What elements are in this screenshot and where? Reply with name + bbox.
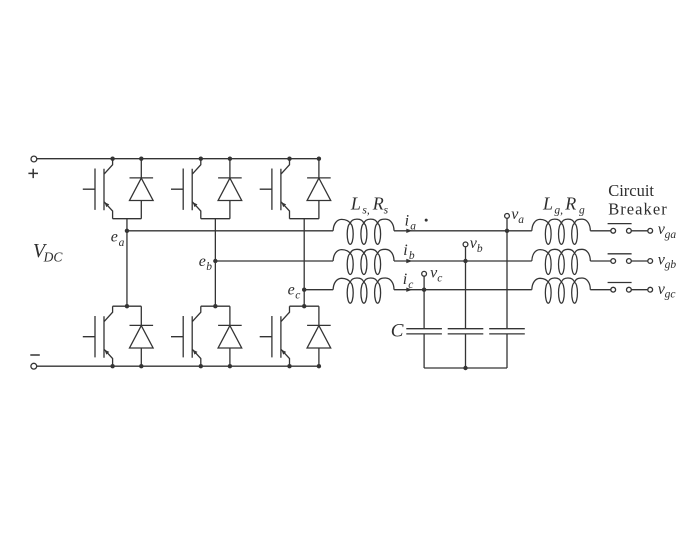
- svg-text:a: a: [119, 237, 125, 249]
- svg-text:L: L: [350, 193, 361, 213]
- svg-text:gc: gc: [665, 288, 676, 300]
- wire bottom leg b collector segment: [201, 305, 230, 307]
- capacitor C phase a top plate: [489, 328, 525, 330]
- DC positive terminal: [31, 156, 37, 162]
- wire capacitor a bottom stem: [506, 334, 508, 368]
- svg-text:e: e: [288, 282, 295, 299]
- junction bottom rail IGBT Q6: [287, 364, 291, 368]
- junction top rail diode D1: [139, 157, 143, 161]
- label i_c: [403, 271, 414, 291]
- dot mark after i_a: [425, 219, 428, 222]
- label v_gb: [658, 251, 677, 271]
- svg-text:c: c: [408, 279, 413, 291]
- label V_DC: [33, 240, 63, 264]
- IGBT Q4 (bottom leg a): [83, 306, 113, 366]
- svg-text:i: i: [403, 271, 407, 288]
- wire node e_a to inverter-side inductor: [127, 230, 333, 232]
- capacitor C phase c bottom plate: [406, 333, 442, 335]
- current arrow i_a: [406, 229, 412, 233]
- junction bottom rail diode D6: [317, 364, 321, 368]
- label e_c: [288, 282, 301, 302]
- diode D3 (antiparallel, top leg c): [307, 159, 331, 219]
- wire capacitor common rail: [424, 367, 507, 369]
- junction v_b stem on phase line: [463, 259, 467, 263]
- capacitor C phase c top plate: [406, 328, 442, 330]
- node e_b: [213, 259, 217, 263]
- inductor L_g phase a: [532, 219, 591, 244]
- wire capacitor c bottom stem: [423, 334, 425, 368]
- label i_b: [403, 242, 415, 262]
- label Ls Rs: [350, 193, 389, 216]
- label Lg Rg: [542, 193, 585, 216]
- inductor L_g phase c: [532, 278, 591, 303]
- IGBT Q1 (top leg a): [83, 159, 113, 219]
- svg-text:b: b: [206, 261, 212, 273]
- svg-text:e: e: [199, 253, 206, 270]
- svg-text:e: e: [111, 228, 118, 245]
- svg-text:b: b: [409, 250, 415, 262]
- wire v_c stem to capacitor: [423, 276, 425, 328]
- node e_a: [125, 229, 129, 233]
- wire top leg b emitter-diode segment: [201, 218, 230, 220]
- svg-text:R: R: [372, 193, 384, 213]
- label i_a: [405, 213, 417, 233]
- wire capacitor b bottom stem: [465, 334, 467, 368]
- label e_b: [199, 253, 213, 273]
- svg-text:g,: g,: [554, 204, 563, 216]
- wire phase leg a vertical: [126, 219, 128, 307]
- junction top rail IGBT Q3: [287, 157, 291, 161]
- svg-text:L: L: [542, 193, 553, 213]
- node e_c: [302, 288, 306, 292]
- bottom DC rail: [37, 365, 319, 367]
- inductor L_s phase a: [333, 219, 394, 244]
- junction top rail IGBT Q1: [110, 157, 114, 161]
- junction bottom rail IGBT Q4: [110, 364, 114, 368]
- label v_gc: [658, 281, 676, 301]
- wire top leg c emitter-diode segment: [290, 218, 319, 220]
- label e_a: [111, 228, 125, 249]
- junction capacitor common rail: [463, 366, 467, 370]
- diode D4 (antiparallel, bottom leg a): [130, 306, 154, 366]
- wire inductor L_g to breaker phase a: [590, 230, 611, 232]
- junction v_c stem on phase line: [422, 288, 426, 292]
- junction bottom rail IGBT Q5: [199, 364, 203, 368]
- wire inductor L_s to inductor L_g phase b: [394, 260, 532, 262]
- circuit breaker pole phase a: [608, 224, 653, 234]
- svg-text:i: i: [405, 213, 409, 230]
- wire phase leg c vertical: [303, 219, 305, 307]
- svg-text:s: s: [384, 205, 389, 217]
- svg-text:c: c: [437, 272, 442, 284]
- terminal v_b: [463, 242, 468, 247]
- wire inductor L_s to inductor L_g phase c: [394, 289, 532, 291]
- svg-text:Breaker: Breaker: [608, 200, 668, 219]
- wire inductor L_g to breaker phase c: [590, 289, 611, 291]
- top DC rail: [37, 158, 319, 160]
- junction bottom rail diode D4: [139, 364, 143, 368]
- IGBT Q6 (bottom leg c): [260, 306, 290, 366]
- svg-text:ga: ga: [665, 229, 677, 241]
- diode D5 (antiparallel, bottom leg b): [218, 306, 242, 366]
- plus sign: [28, 169, 38, 178]
- wire v_a stem to capacitor: [506, 218, 508, 328]
- svg-text:a: a: [518, 214, 524, 226]
- svg-text:a: a: [410, 221, 416, 233]
- circuit breaker pole phase c: [608, 283, 653, 293]
- label v_a: [511, 206, 524, 226]
- label C: [391, 320, 404, 341]
- junction top rail diode D2: [228, 157, 232, 161]
- wire bottom leg c collector segment: [290, 305, 319, 307]
- DC negative terminal: [31, 363, 37, 369]
- junction top rail IGBT Q2: [199, 157, 203, 161]
- wire node e_c to inverter-side inductor: [304, 289, 333, 291]
- wire bottom leg a collector segment: [113, 305, 142, 307]
- label v_b: [470, 235, 483, 255]
- label Circuit Breaker line1: [608, 181, 654, 200]
- capacitor C phase a bottom plate: [489, 333, 525, 335]
- wire top leg a emitter-diode segment: [113, 218, 142, 220]
- minus sign: [30, 354, 40, 356]
- junction bottom leg a phase tee: [125, 304, 129, 308]
- inductor L_s phase b: [333, 249, 394, 274]
- wire v_b stem to capacitor: [465, 247, 467, 329]
- svg-text:s,: s,: [362, 204, 369, 216]
- wire inductor L_s to inductor L_g phase a: [394, 230, 532, 232]
- svg-text:gb: gb: [665, 259, 677, 271]
- junction v_a stem on phase line: [505, 229, 509, 233]
- junction bottom leg c phase tee: [302, 304, 306, 308]
- diode D1 (antiparallel, top leg a): [130, 159, 154, 219]
- IGBT Q2 (top leg b): [171, 159, 201, 219]
- svg-text:i: i: [403, 242, 407, 259]
- junction bottom rail diode D5: [228, 364, 232, 368]
- terminal v_a: [505, 214, 510, 219]
- svg-text:C: C: [391, 320, 404, 341]
- IGBT Q5 (bottom leg b): [171, 306, 201, 366]
- capacitor C phase b bottom plate: [448, 333, 484, 335]
- junction bottom leg b phase tee: [213, 304, 217, 308]
- current arrow i_c: [406, 288, 412, 292]
- diode D2 (antiparallel, top leg b): [218, 159, 242, 219]
- junction top rail diode D3: [317, 157, 321, 161]
- IGBT Q3 (top leg c): [260, 159, 290, 219]
- label Circuit Breaker line2: [608, 200, 668, 219]
- svg-text:g: g: [579, 204, 585, 216]
- wire phase leg b vertical: [214, 219, 216, 307]
- diode D6 (antiparallel, bottom leg c): [307, 306, 331, 366]
- inductor L_s phase c: [333, 278, 394, 303]
- svg-text:DC: DC: [43, 249, 64, 264]
- label v_c: [430, 264, 442, 284]
- svg-text:c: c: [295, 289, 300, 301]
- wire inductor L_g to breaker phase b: [590, 260, 611, 262]
- svg-text:R: R: [564, 193, 576, 213]
- svg-text:Circuit: Circuit: [608, 181, 654, 200]
- inductor L_g phase b: [532, 249, 591, 274]
- capacitor C phase b top plate: [448, 328, 484, 330]
- svg-text:b: b: [477, 243, 483, 255]
- circuit breaker pole phase b: [608, 254, 653, 264]
- current arrow i_b: [406, 259, 412, 263]
- label v_ga: [658, 221, 677, 241]
- wire node e_b to inverter-side inductor: [215, 260, 333, 262]
- terminal v_c: [422, 271, 427, 276]
